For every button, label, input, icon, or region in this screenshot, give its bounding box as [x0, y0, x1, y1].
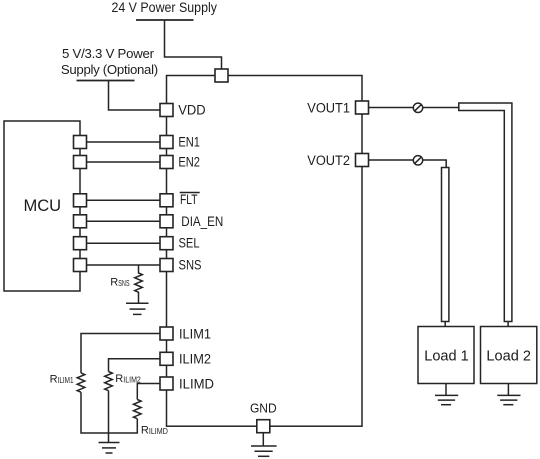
svg-text:RILIM1: RILIM1 — [50, 373, 74, 385]
wire: 24 V rail to VIN pin — [165, 20, 222, 70]
pin SNS — [160, 259, 173, 272]
ground (Load 1) — [435, 384, 458, 405]
svg-text:ILIM1: ILIM1 — [179, 327, 211, 342]
resistor RILIM1 — [77, 373, 85, 392]
svg-text:Load 1: Load 1 — [424, 348, 469, 364]
wire: MCU to EN2 — [80, 161, 167, 163]
pin ILIM2 — [160, 352, 173, 365]
resistor RILIM2 — [105, 372, 113, 391]
svg-text:MCU: MCU — [23, 196, 61, 215]
wire harness: VOUT2 to Load 1 (vertical thick conductor) — [442, 168, 449, 322]
load LOAD2 body — [481, 327, 537, 384]
ground (below RSNS) — [126, 303, 149, 314]
wire: VOUT1 to current sense — [369, 107, 459, 109]
24 V supply rail bar — [136, 19, 194, 21]
pin VDD — [160, 104, 173, 117]
wire: MCU to DIA_EN — [80, 220, 167, 222]
pin ILIMD — [160, 377, 173, 390]
svg-text:ILIMD: ILIMD — [179, 376, 214, 391]
wire: RILIM2 to ground — [108, 391, 110, 443]
ground (Load 2) — [497, 384, 520, 405]
svg-text:VOUT2: VOUT2 — [307, 153, 350, 168]
pin squares — [74, 69, 369, 433]
MCU pin (EN2 row) — [74, 156, 87, 169]
pin GND — [257, 420, 270, 433]
svg-text:24 V Power Supply: 24 V Power Supply — [111, 0, 217, 15]
wire: ILIM1 pin to RILIM1 — [81, 334, 167, 374]
svg-text:EN2: EN2 — [178, 155, 200, 170]
wire: ILIM2 pin to RILIM2 — [109, 359, 167, 372]
resistor RSNS — [135, 265, 143, 303]
pin VIN (top edge, unlabeled) — [215, 69, 228, 82]
MCU pin (SNS row) — [74, 259, 87, 272]
svg-text:SNS: SNS — [179, 257, 202, 272]
overline of FLT label — [180, 192, 200, 194]
pin EN1 — [160, 136, 173, 149]
pin VOUT1 — [356, 101, 369, 114]
svg-text:ILIM2: ILIM2 — [179, 352, 211, 367]
5 V supply rail bar — [77, 80, 135, 82]
wire: RILIMD to common ground node — [109, 419, 138, 433]
svg-text:DIA_EN: DIA_EN — [181, 214, 223, 229]
MCU U1 body — [4, 121, 80, 291]
pin EN2 — [160, 156, 173, 169]
wire: RILIM1 to common ground node — [81, 392, 109, 433]
wire: 5 V rail to VDD pin — [109, 81, 161, 111]
svg-text:Load 2: Load 2 — [486, 348, 531, 364]
svg-text:5 V/3.3 V Power: 5 V/3.3 V Power — [62, 46, 155, 61]
wire: MCU to FLT — [80, 199, 167, 201]
pin FLT — [160, 194, 173, 207]
svg-text:GND: GND — [250, 401, 277, 416]
wire: MCU to SNS — [80, 264, 167, 266]
ground (GND pin) — [251, 433, 277, 456]
wire harness: VOUT1 to Load 2 (L-shaped thick conductor) — [459, 103, 512, 322]
svg-text:RILIM2: RILIM2 — [115, 373, 141, 385]
wire: harness to Load 2 — [507, 322, 509, 327]
svg-text:RILIMD: RILIMD — [141, 424, 168, 436]
svg-text:VDD: VDD — [178, 103, 206, 118]
wire: harness to Load 1 — [444, 322, 446, 327]
MCU pin (SEL row) — [74, 237, 87, 250]
resistor RILIMD — [134, 400, 142, 419]
current sense probe (VOUT1) — [413, 103, 422, 112]
MCU pin (EN1 row) — [74, 136, 87, 149]
MCU pin (DIA_EN row) — [74, 215, 87, 228]
svg-text:SEL: SEL — [179, 236, 200, 251]
wire: VOUT2 to current sense and down to harness — [369, 160, 446, 168]
load LOAD1 body — [418, 327, 474, 384]
wire: MCU to EN1 — [80, 141, 167, 143]
svg-text:VOUT1: VOUT1 — [307, 101, 350, 116]
pin DIA_EN — [160, 215, 173, 228]
svg-text:FLT: FLT — [180, 192, 198, 207]
svg-text:RSNS: RSNS — [110, 276, 129, 288]
svg-text:Supply (Optional): Supply (Optional) — [61, 62, 158, 77]
wire: MCU to SEL — [80, 242, 167, 244]
ground (ILIM resistors common) — [99, 443, 120, 454]
label: 5 V/3.3 V Power Supply (Optional) — [61, 46, 158, 77]
svg-text:EN1: EN1 — [178, 135, 200, 150]
power switch IC U2 body — [167, 76, 363, 427]
current sense probe (VOUT2) — [413, 156, 422, 165]
MCU pin (FLT row) — [74, 194, 87, 207]
wire: ILIMD pin to RILIMD — [137, 384, 166, 400]
pin ILIM1 — [160, 327, 173, 340]
pin SEL — [160, 237, 173, 250]
pin VOUT2 — [356, 154, 369, 167]
